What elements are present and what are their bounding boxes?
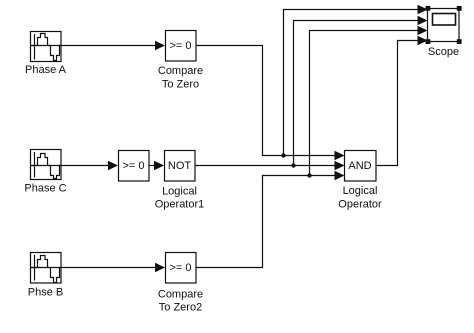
svg-text:>= 0: >= 0 [169,262,191,274]
svg-text:Operator: Operator [338,199,382,211]
svg-text:AND: AND [348,160,371,172]
svg-text:Operator1: Operator1 [155,199,205,211]
svg-text:To Zero: To Zero [162,79,199,91]
svg-text:NOT: NOT [168,160,192,172]
svg-text:>= 0: >= 0 [122,160,144,172]
svg-text:>= 0: >= 0 [169,40,191,52]
svg-text:Compare: Compare [158,65,203,77]
svg-text:Scope: Scope [428,46,459,58]
svg-text:Phase A: Phase A [25,64,67,76]
svg-text:Logical: Logical [162,186,197,198]
svg-text:Phse B: Phse B [28,287,63,299]
svg-text:Logical: Logical [343,185,378,197]
svg-text:To Zero2: To Zero2 [159,302,202,314]
svg-text:Compare: Compare [158,289,203,301]
svg-text:Phase C: Phase C [24,183,66,195]
